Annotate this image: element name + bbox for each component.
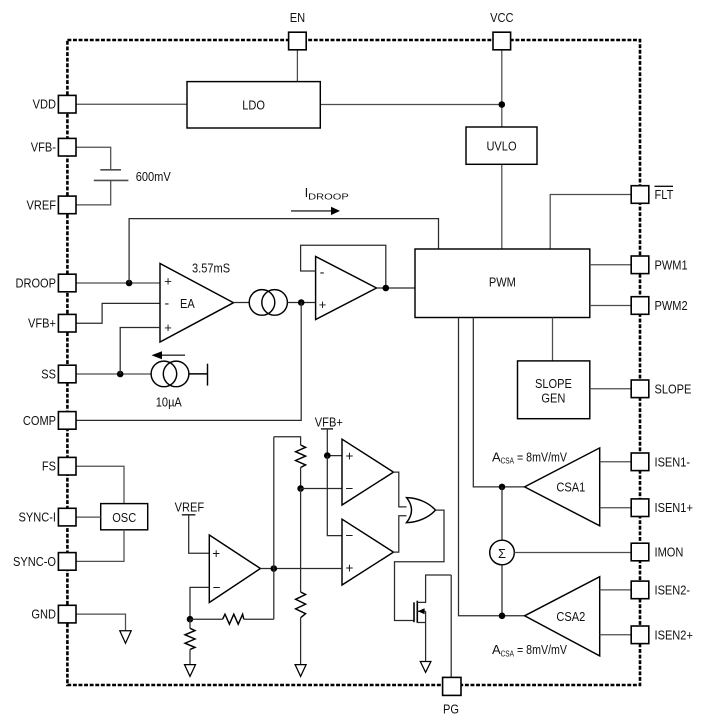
wire battery to VREF bbox=[76, 180, 111, 205]
wire GND pin to ground bbox=[76, 614, 126, 631]
comparator U7 upper bbox=[342, 439, 394, 505]
wire buffer output to lower comparator + input bbox=[260, 568, 342, 570]
transistor Q1 bbox=[414, 575, 451, 662]
wire VREF to buffer + input bbox=[189, 515, 210, 553]
svg-text:VREF: VREF bbox=[175, 499, 205, 514]
wire buffer feedback loop bbox=[301, 245, 386, 288]
svg-text:ISEN1+: ISEN1+ bbox=[655, 500, 693, 515]
pin IMON bbox=[631, 543, 683, 561]
svg-text:+: + bbox=[164, 273, 172, 288]
svg-text:3.57mS: 3.57mS bbox=[192, 260, 230, 275]
pin ISEN2- bbox=[631, 581, 690, 599]
svg-text:+: + bbox=[346, 561, 354, 576]
svg-text:PWM1: PWM1 bbox=[655, 257, 688, 272]
svg-text:−: − bbox=[213, 580, 221, 595]
svg-text:DROOP: DROOP bbox=[308, 192, 349, 202]
node COMP junction bbox=[298, 299, 305, 306]
wire output node rail bbox=[273, 437, 275, 620]
wire R2 to ground bbox=[300, 618, 302, 665]
svg-text:CSA: CSA bbox=[501, 456, 515, 466]
svg-text:VCC: VCC bbox=[490, 10, 513, 25]
wire VFB- to battery bbox=[76, 147, 111, 169]
wire PWM to CSA1 bbox=[473, 318, 524, 487]
svg-text:PWM: PWM bbox=[489, 274, 516, 289]
svg-text:CSA2: CSA2 bbox=[556, 609, 585, 624]
svg-text:PWM2: PWM2 bbox=[655, 298, 688, 313]
pin ISEN1- bbox=[631, 453, 690, 471]
wire buffer output to PWM bbox=[377, 287, 416, 289]
svg-text:COMP: COMP bbox=[23, 413, 56, 428]
wire VDD to LDO bbox=[76, 103, 187, 105]
wire LDO output to VCC node bbox=[320, 104, 502, 106]
svg-text:−: − bbox=[346, 481, 354, 496]
svg-text:Σ: Σ bbox=[498, 546, 506, 561]
svg-text:10µA: 10µA bbox=[156, 395, 182, 410]
svg-text:SS: SS bbox=[41, 367, 56, 382]
op-amp U3 buffer bbox=[316, 257, 377, 320]
pin VFB- bbox=[31, 138, 76, 156]
svg-text:FLT: FLT bbox=[655, 187, 674, 202]
wire FLT to PWM bbox=[550, 195, 631, 250]
node DROOP junction bbox=[126, 280, 133, 287]
op-amp EA (error amplifier) bbox=[160, 264, 234, 343]
pin EN bbox=[289, 10, 307, 50]
svg-text:+: + bbox=[212, 546, 220, 561]
amplifier CSA2 bbox=[525, 577, 600, 656]
pin VFB+ bbox=[28, 314, 76, 332]
svg-text:-: - bbox=[165, 295, 170, 311]
wire CSA2 to ISEN2- pin bbox=[600, 589, 632, 591]
pin VDD bbox=[33, 95, 76, 113]
wire PWM to PWM1 pin bbox=[590, 264, 631, 266]
LDO block U1 bbox=[187, 82, 320, 128]
svg-text:EA: EA bbox=[180, 296, 195, 311]
node VFB+ junction bbox=[324, 452, 331, 459]
wire EN to LDO bbox=[296, 50, 298, 82]
wire divider node to R2 bbox=[300, 489, 302, 593]
pin PWM1 bbox=[631, 256, 687, 274]
wire PWM to PWM2 pin bbox=[590, 305, 631, 307]
op-amp U9 VREF buffer bbox=[209, 535, 260, 603]
wire upper comparator to OR gate bbox=[394, 472, 407, 507]
pin SS bbox=[41, 365, 76, 383]
ground symbol MOSFET source bbox=[420, 662, 431, 673]
wire VFB+ to EA - input bbox=[76, 303, 160, 323]
resistor R4 to ground bbox=[185, 628, 195, 649]
node SS junction bbox=[117, 371, 124, 378]
svg-text:SYNC-O: SYNC-O bbox=[13, 554, 56, 569]
resistor R2 divider bottom bbox=[296, 592, 306, 618]
label IDROOP bbox=[305, 185, 349, 202]
terminal bar VFB+ bbox=[321, 428, 333, 430]
wire CSA1 to ISEN1- pin bbox=[600, 461, 632, 463]
wire VCC to UVLO bbox=[501, 50, 503, 127]
chip boundary dashed border bbox=[67, 40, 640, 685]
wire DROOP to EA + input bbox=[76, 282, 160, 284]
wire PWM to CSA2 bbox=[459, 318, 525, 616]
svg-text:LDO: LDO bbox=[242, 97, 265, 112]
svg-text:+: + bbox=[346, 449, 354, 464]
wire UVLO to PWM bbox=[501, 164, 503, 249]
svg-text:UVLO: UVLO bbox=[486, 138, 516, 153]
svg-text:= 8mV/mV: = 8mV/mV bbox=[517, 642, 567, 657]
PWM block U4 bbox=[415, 249, 590, 318]
pin COMP bbox=[23, 412, 76, 430]
wire VFB+ to comparator inputs bbox=[327, 429, 342, 456]
svg-text:ISEN2+: ISEN2+ bbox=[655, 627, 693, 642]
wire MOSFET drain to PG pin bbox=[450, 575, 452, 677]
arrow IDROOP direction bbox=[291, 207, 340, 215]
pin PG bbox=[443, 677, 461, 716]
wire R4 to ground bbox=[189, 649, 191, 664]
svg-text:-: - bbox=[320, 264, 325, 280]
pin FS bbox=[42, 457, 76, 475]
pin FLT bbox=[631, 186, 673, 204]
wire FS to OSC bbox=[76, 466, 124, 503]
terminal bar VREF bbox=[182, 514, 196, 516]
wire feedback resistor to output rail bbox=[244, 618, 274, 620]
svg-text:SLOPE: SLOPE bbox=[655, 381, 692, 396]
wire CSA1 node to sigma bbox=[501, 487, 503, 540]
svg-text:DROOP: DROOP bbox=[16, 276, 57, 291]
current source gm output bbox=[249, 290, 287, 316]
battery 600mV reference bbox=[94, 170, 129, 181]
comparator U8 lower bbox=[342, 519, 394, 585]
wire node to R4 bbox=[189, 619, 191, 628]
pin ISEN1+ bbox=[631, 499, 693, 517]
wire IDROOP from droop node to PWM bbox=[129, 219, 438, 283]
svg-text:CSA1: CSA1 bbox=[556, 480, 585, 495]
svg-text:VDD: VDD bbox=[33, 97, 56, 112]
wire SS to 10uA source bbox=[76, 373, 151, 375]
svg-text:FS: FS bbox=[42, 459, 56, 474]
svg-text:SYNC-I: SYNC-I bbox=[19, 510, 57, 525]
svg-text:ISEN2-: ISEN2- bbox=[655, 582, 691, 597]
wire sigma to IMON pin bbox=[514, 552, 631, 554]
svg-text:= 8mV/mV: = 8mV/mV bbox=[517, 449, 567, 464]
svg-text:SLOPE: SLOPE bbox=[535, 376, 572, 391]
arrow 10uA direction bbox=[152, 351, 186, 359]
ground symbol GND bbox=[120, 631, 131, 643]
node VREF buffer output junction bbox=[271, 565, 278, 572]
wire divider node to upper comparator - input bbox=[301, 488, 342, 490]
wire COMP node to COMP pin bbox=[76, 303, 301, 421]
node feedback junction bbox=[187, 616, 194, 623]
node VCC-LDO junction bbox=[499, 101, 506, 108]
pin SLOPE bbox=[631, 380, 691, 398]
pin VREF bbox=[27, 196, 77, 214]
SLOPE GEN block U5 bbox=[518, 361, 590, 419]
svg-text:IMON: IMON bbox=[655, 545, 684, 560]
node CSA2 output junction bbox=[499, 613, 506, 620]
wire divider top rail bbox=[274, 437, 301, 445]
wire VFB+ node to lower comparator - input bbox=[327, 456, 342, 536]
wire PWM to slope gen bbox=[552, 318, 554, 361]
wire slope gen to SLOPE pin bbox=[590, 388, 631, 390]
UVLO block U2 bbox=[466, 127, 537, 164]
pin VCC bbox=[490, 10, 513, 50]
wire sigma to CSA2 node bbox=[501, 565, 503, 616]
wire SYNC-I to OSC bbox=[76, 516, 101, 518]
amplifier CSA1 bbox=[525, 448, 600, 526]
current source I1 10uA bbox=[151, 361, 207, 387]
svg-text:OSC: OSC bbox=[112, 510, 136, 525]
pin SYNC-I bbox=[19, 508, 77, 526]
label ACSA gain 1 bbox=[492, 449, 567, 465]
node divider junction bbox=[297, 485, 304, 492]
svg-text:VFB+: VFB+ bbox=[315, 414, 343, 429]
svg-text:VREF: VREF bbox=[27, 197, 57, 212]
wire R1 to divider node bbox=[300, 468, 302, 489]
svg-text:CSA: CSA bbox=[501, 648, 515, 658]
wire node to feedback resistor bbox=[190, 618, 223, 620]
svg-text:600mV: 600mV bbox=[136, 169, 171, 184]
label ACSA gain 2 bbox=[492, 642, 567, 658]
pin SYNC-O bbox=[13, 553, 76, 571]
OR gate U10 bbox=[407, 498, 436, 523]
wire CSA2 to ISEN2+ pin bbox=[600, 634, 632, 636]
node buffer output junction bbox=[383, 285, 390, 292]
ground symbol feedback bbox=[185, 665, 196, 677]
wire EA output to gm current source bbox=[234, 302, 250, 304]
wire OR gate output to MOSFET gate bbox=[395, 510, 445, 620]
wire gm source to buffer + input bbox=[287, 302, 315, 304]
pin PWM2 bbox=[631, 297, 687, 315]
ground symbol divider bbox=[295, 665, 306, 677]
pin GND bbox=[31, 605, 76, 623]
resistor R1 divider top bbox=[296, 445, 306, 468]
svg-text:GEN: GEN bbox=[541, 391, 565, 406]
wire buffer - input feedback bbox=[190, 587, 209, 619]
pin DROOP bbox=[16, 274, 77, 292]
svg-text:VFB-: VFB- bbox=[31, 140, 56, 155]
resistor R3 feedback bbox=[223, 614, 244, 624]
svg-text:EN: EN bbox=[290, 10, 305, 25]
node CSA1 output junction bbox=[499, 484, 506, 491]
svg-text:ISEN1-: ISEN1- bbox=[655, 454, 691, 469]
wire SS node to EA lower + input bbox=[120, 328, 160, 375]
svg-text:PG: PG bbox=[443, 702, 459, 717]
svg-text:VFB+: VFB+ bbox=[28, 316, 56, 331]
svg-text:+: + bbox=[319, 297, 327, 312]
svg-text:GND: GND bbox=[31, 607, 56, 622]
summer sigma bbox=[490, 540, 515, 565]
pin ISEN2+ bbox=[631, 626, 693, 644]
wire CSA1 to ISEN1+ pin bbox=[600, 507, 632, 509]
svg-text:−: − bbox=[346, 528, 354, 543]
OSC block U6 bbox=[101, 504, 148, 530]
wire SYNC-O to OSC bbox=[76, 530, 124, 562]
wire lower comparator to OR gate bbox=[394, 516, 407, 552]
svg-text:+: + bbox=[164, 320, 172, 335]
